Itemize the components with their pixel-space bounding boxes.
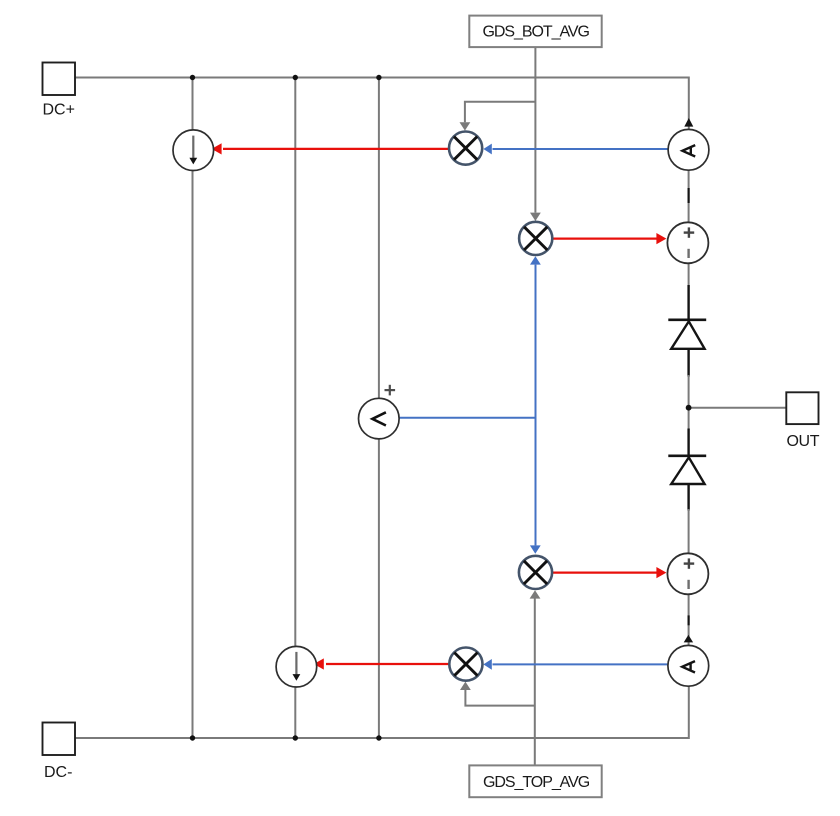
diode D1 triangle xyxy=(671,321,704,348)
wire blue A2 output to M4 xyxy=(493,663,669,665)
wire blue vertical to M2 xyxy=(535,265,537,418)
wire rail 3 upper segment xyxy=(378,78,380,399)
arrow gray into M3 bottom xyxy=(530,590,541,598)
current source CS2 circle xyxy=(276,646,317,687)
summer S1 plus sign xyxy=(684,231,695,233)
label box GDS_TOP_AVG xyxy=(469,765,601,797)
summer S2 plus sign xyxy=(684,562,695,564)
arrow blue into M2 bottom xyxy=(530,256,541,264)
current source CS2 arrow head xyxy=(293,674,301,681)
arrow blue into M1 right xyxy=(483,144,491,155)
ammeter A1 circle xyxy=(668,129,709,170)
node OUT junction dot xyxy=(686,405,692,411)
wire black segment below D1 xyxy=(687,349,689,377)
multiplier M2 X symbol xyxy=(524,227,547,250)
wire black dash between S2 and A2 xyxy=(687,615,689,625)
node junction dot 6 xyxy=(376,735,381,740)
svg-text:GDS_TOP_AVG: GDS_TOP_AVG xyxy=(483,774,590,791)
summer S2 circle xyxy=(667,553,708,594)
arrow black above ammeter A2 xyxy=(684,635,693,643)
arrow black above ammeter A1 xyxy=(684,118,693,127)
diode D2 cathode bar xyxy=(668,454,706,457)
wire blue vertical to M3 xyxy=(535,418,537,546)
wire S2 to ammeter A2 xyxy=(688,594,690,646)
current source CS1 circle xyxy=(173,130,214,171)
arrow red into CS1 right xyxy=(212,143,222,154)
ammeter A2 rotated A glyph xyxy=(682,661,695,672)
current source CS2 arrow line xyxy=(295,652,297,675)
wire GDS_TOP_AVG stem up to multiplier M3 xyxy=(534,599,536,766)
wire black dash between A1 and S1 xyxy=(687,188,689,203)
port DC+ box xyxy=(43,63,76,96)
wire D2 to summer S2 xyxy=(688,509,690,553)
wire red M1 output to CS1 xyxy=(223,148,449,150)
port OUT box xyxy=(786,392,818,424)
wire D1 to node OUT xyxy=(688,375,690,405)
summer S1 circle xyxy=(667,222,708,263)
wire node OUT to port OUT xyxy=(690,407,786,409)
ammeter A1 rotated A glyph xyxy=(682,145,695,156)
wire black segment below D2 xyxy=(687,484,689,511)
multiplier M1 X symbol xyxy=(454,137,477,160)
wire blue A1 output to M1 xyxy=(493,148,669,150)
node junction dot 4 xyxy=(190,735,195,740)
diode D1 cathode bar xyxy=(668,318,706,321)
wire red M2 output to S1 xyxy=(553,238,658,240)
wire top rail from DC+ to ammeter A1 branch xyxy=(75,78,689,131)
port DC- box xyxy=(43,723,76,756)
wire GDS_BOT_AVG branch to multiplier M1 xyxy=(465,102,536,123)
node junction dot 1 xyxy=(190,75,195,80)
node junction dot 3 xyxy=(376,75,381,80)
multiplier M3 circle xyxy=(519,556,552,589)
multiplier M1 circle xyxy=(449,132,482,165)
arrow gray into M1 top xyxy=(460,122,471,130)
comparator CMP1 less-than symbol xyxy=(372,412,386,425)
multiplier M3 X symbol xyxy=(524,561,547,584)
wire GDS_TOP_AVG branch to multiplier M4 xyxy=(465,690,534,706)
node junction dot 5 xyxy=(293,735,298,740)
wire black segment above D1 xyxy=(687,285,689,319)
wire rail 1 lower segment xyxy=(192,171,194,738)
wire rail 1 upper segment xyxy=(192,78,194,131)
comparator CMP1 circle xyxy=(359,398,400,439)
summer S1 minus bar xyxy=(687,249,689,258)
svg-text:GDS_BOT_AVG: GDS_BOT_AVG xyxy=(483,23,590,40)
ammeter A2 circle xyxy=(668,645,709,686)
multiplier M2 circle xyxy=(519,222,552,255)
svg-text:OUT: OUT xyxy=(787,433,820,450)
wire GDS_BOT_AVG stem down to multiplier M2 xyxy=(534,47,536,212)
current source CS1 arrow head xyxy=(189,158,197,165)
diode D2 triangle xyxy=(671,457,704,484)
wire node OUT to diode D2 xyxy=(688,410,690,430)
arrow gray into M4 bottom xyxy=(460,682,471,690)
wire bottom rail from DC- to ammeter A2 branch xyxy=(75,686,689,739)
wire black segment above D2 xyxy=(687,429,689,456)
arrow blue into M4 right xyxy=(483,659,491,670)
arrow red into S2 left xyxy=(656,567,666,578)
wire A1 to summer S1 xyxy=(688,170,690,222)
comparator CMP1 plus sign xyxy=(385,389,396,391)
arrow red into CS2 right xyxy=(314,658,324,669)
multiplier M4 X symbol xyxy=(454,653,477,676)
wire rail 2 lower segment xyxy=(294,687,296,738)
arrow red into S1 left xyxy=(656,233,666,244)
arrow blue into M3 top xyxy=(530,545,541,553)
wire rail 2 upper segment xyxy=(294,78,296,647)
svg-text:DC+: DC+ xyxy=(43,102,75,119)
wire S1 to diode D1 xyxy=(688,263,690,287)
wire blue comparator output xyxy=(399,417,536,419)
node junction dot 2 xyxy=(293,75,298,80)
wire rail 3 lower segment xyxy=(378,439,380,738)
arrow gray into M2 top xyxy=(530,213,541,221)
wire red M4 output to CS2 xyxy=(326,663,449,665)
svg-text:DC-: DC- xyxy=(44,764,72,781)
multiplier M4 circle xyxy=(449,648,482,681)
current source CS1 arrow line xyxy=(192,136,194,159)
summer S2 minus bar xyxy=(687,580,689,589)
wire red M3 output to S2 xyxy=(552,571,657,573)
label box GDS_BOT_AVG xyxy=(469,16,601,47)
